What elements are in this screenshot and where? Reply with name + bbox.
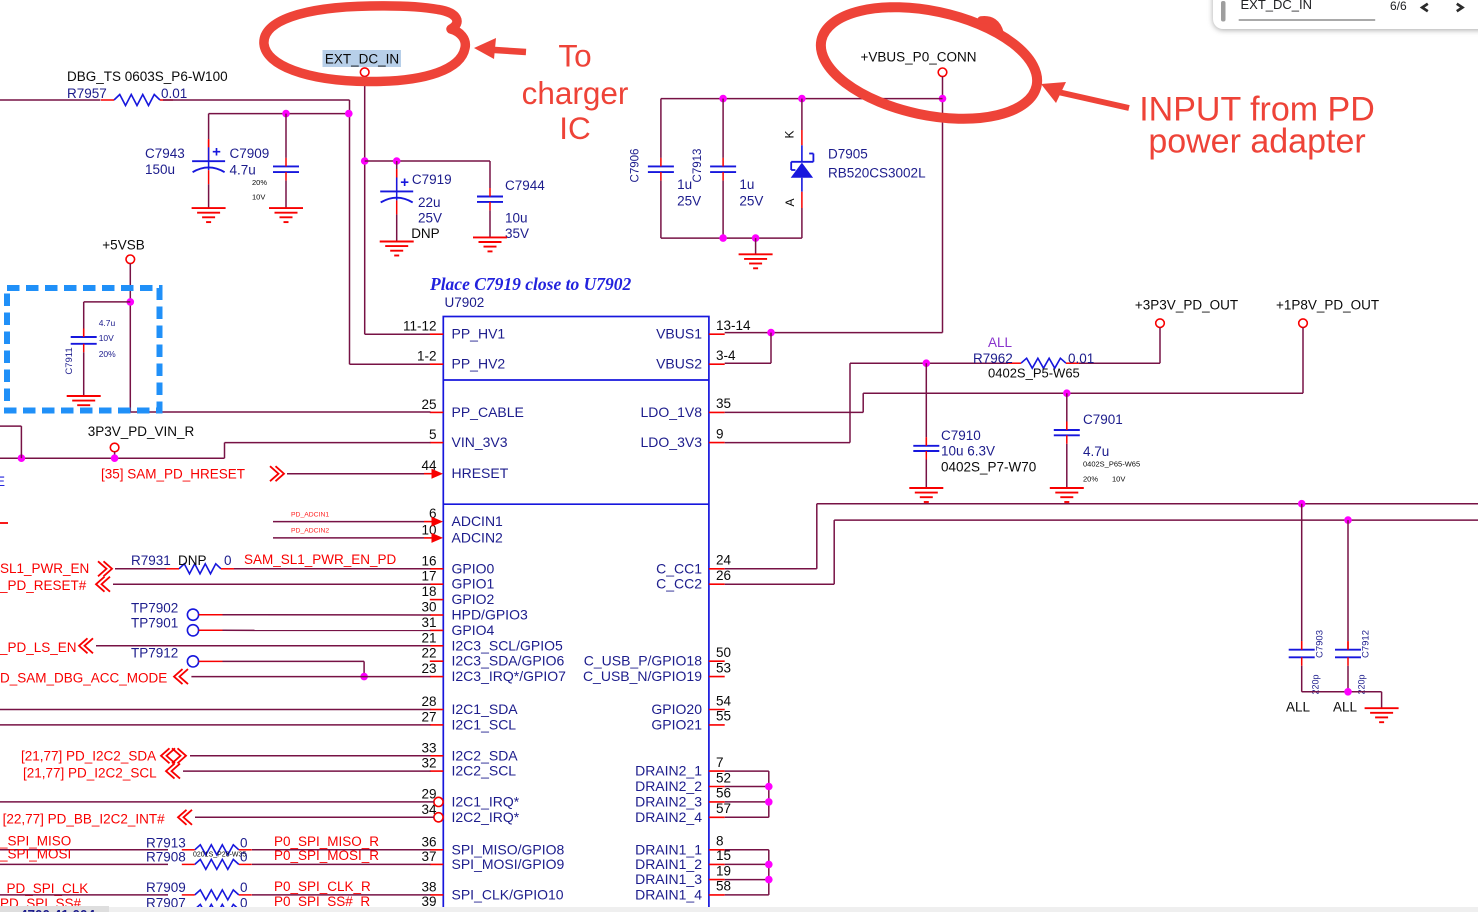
chevron <<	[96, 577, 110, 592]
wire MOSI from left edge	[0, 863, 168, 865]
junction D7905 top	[798, 95, 806, 103]
IC section divider 1	[443, 379, 709, 381]
wire C_CC1 to CC1 bus	[725, 568, 817, 570]
ground C7910	[909, 488, 943, 502]
wire CC2 bus to right edge	[834, 519, 1478, 521]
capacitor C7912 220p	[1335, 641, 1361, 666]
U7902 left pin stubs	[430, 333, 444, 335]
chevron SAM_PD_HRESET >>	[270, 466, 284, 481]
wire 3P3V port to net	[114, 452, 116, 458]
capacitor C7944 10u 35V	[477, 188, 503, 210]
wire C7943 to ground	[208, 184, 210, 208]
wire to pin 33	[190, 755, 431, 757]
wire C7944 leg	[489, 161, 491, 188]
wire R7962 to +3P3V port	[1079, 362, 1160, 364]
wire cap rail C7943/C7909	[209, 113, 350, 115]
DRAIN2 bracket wires	[725, 770, 769, 772]
wire +3P3V drop	[1159, 328, 1161, 364]
junction DRAIN1_2	[765, 861, 773, 869]
wire C7912 leg	[1347, 520, 1349, 641]
cut red dash at left edge	[0, 522, 8, 524]
wire to pin 21	[96, 645, 431, 647]
wire C7909 leg upper	[285, 114, 287, 158]
wire gnd stem	[755, 238, 757, 254]
junction DRAIN2_3	[765, 798, 773, 806]
ADCIN2 input arrow pin 10	[432, 533, 444, 543]
resistor R7957 0.01	[114, 95, 160, 106]
wire left edge jog	[20, 426, 22, 458]
wire corner down to PP_HV2	[349, 100, 351, 364]
wire to pin 17	[113, 583, 431, 585]
capacitor C7910 10u 6.3V	[913, 437, 939, 459]
wire R7913 to pin 36	[252, 849, 431, 851]
find bar underline	[1239, 19, 1376, 21]
wire C7911 branch	[84, 301, 131, 303]
wire gnd stem	[1381, 692, 1383, 708]
wire EXT_DC_IN vertical to PP_HV1	[364, 77, 366, 335]
junction +VBUS rail	[939, 95, 947, 103]
wire C7903 lower	[1301, 666, 1303, 692]
DRAIN2 bracket vertical	[768, 771, 770, 817]
wire C7912 lower	[1347, 666, 1349, 692]
wire TP7902 to pin 30	[199, 614, 223, 616]
junction C7911 tap	[127, 298, 135, 306]
wire pin 28 I2C1_SDA from left edge	[0, 709, 431, 711]
ground C7909	[269, 208, 303, 222]
wire C7910 leg	[925, 363, 927, 437]
junction C7919 leg	[393, 157, 401, 165]
wire C7944 to ground	[489, 210, 491, 237]
resistor R7931 DNP 0	[179, 564, 221, 574]
wire VBUS2 riser	[770, 333, 772, 364]
pin 39 stub (partial)	[430, 908, 444, 910]
find bar next chevron	[1457, 4, 1463, 11]
wire LDO_1V8 to 1P8 rail	[725, 411, 864, 413]
capacitor C7906 1u 25V	[648, 158, 674, 181]
svg-text:EXT_DC_IN: EXT_DC_IN	[1241, 0, 1313, 12]
find bar prev chevron	[1422, 4, 1428, 11]
junction at x21	[18, 454, 26, 462]
wire TP7901 to pin 31	[199, 629, 223, 631]
wire +1P8V drop	[1302, 328, 1304, 394]
chevron <<	[79, 638, 93, 653]
wire C7906 leg lower	[660, 181, 662, 239]
wire riser to pin 5	[224, 443, 226, 459]
ADCIN1 input arrow pin 6	[432, 517, 444, 527]
wire pin 29 from left edge	[0, 801, 434, 803]
diode D7905 RB520CS3002L (schottky)	[791, 145, 814, 191]
chevron <<	[166, 764, 180, 779]
junction C7912 tap	[1344, 516, 1352, 524]
U7902 right pin stubs	[709, 333, 725, 335]
wire VBUS bottom rail	[661, 237, 802, 239]
open-circle pin 29 I2C1_IRQ*	[434, 797, 443, 806]
wire 3V3 rail to R7962	[850, 362, 1008, 364]
wire VBUS top rail	[661, 98, 943, 100]
ground VBUS filter	[739, 254, 773, 268]
junction EXT_DC_IN / C7919 rail	[361, 157, 369, 165]
chevron <<	[178, 810, 192, 825]
resistor R7909 0	[195, 890, 239, 900]
wire C7919 to ground	[396, 214, 398, 241]
port circle +3P3V_PD_OUT	[1156, 319, 1165, 328]
blue dashed placement box	[7, 288, 160, 411]
port circle 3P3V_PD_VIN_R	[110, 443, 119, 452]
capacitor C7903 220p	[1289, 641, 1315, 666]
wire to pin 23	[191, 676, 430, 678]
wire C7911 to ground	[83, 352, 85, 396]
wire PP_HV1 horizontal	[365, 333, 431, 335]
junction at port	[111, 454, 119, 462]
wire to pin 34	[195, 816, 434, 818]
annotation ellipse around +VBUS_P0_CONN	[811, 0, 1048, 137]
browser find bar	[1213, 0, 1478, 29]
wire DBG_TS net from left edge	[0, 99, 101, 101]
junction VBUS1/VBUS2	[767, 329, 775, 337]
wire C7910 to ground	[925, 460, 927, 489]
port circle +VBUS_P0_CONN	[938, 68, 947, 77]
wire TP7912 jog to pin 23 wire	[199, 660, 223, 662]
capacitor C7913 1u 25V	[710, 158, 736, 181]
port circle EXT_DC_IN	[360, 68, 369, 77]
port circle +5VSB	[126, 255, 135, 264]
IC section divider 2	[443, 503, 709, 505]
annotation arrow to EXT_DC_IN	[487, 50, 526, 53]
wire C7909 to ground	[285, 181, 287, 209]
junction C7913 top	[719, 95, 727, 103]
wire ADCIN1	[273, 521, 424, 523]
bottom page-edge strip	[0, 907, 1478, 912]
junction C7901 tap	[1063, 389, 1071, 397]
wire R7957 to corner	[163, 99, 350, 101]
wire caps join to ground	[1302, 691, 1382, 693]
wire CLK from left edge	[0, 894, 168, 896]
wire LDO_3V3 to 3V3 rail	[725, 442, 850, 444]
ground CC filter	[1365, 708, 1399, 722]
annotation ellipse around EXT_DC_IN	[264, 6, 465, 82]
wire CC1 bus to right edge	[817, 503, 1478, 505]
HRESET input arrow pin 44	[432, 469, 444, 479]
wire R7909 to pin 38	[252, 894, 431, 896]
op-amp U7902 body (IC outline)	[443, 317, 709, 912]
capacitor C7919 22u 25V DNP (polarized)	[380, 169, 413, 214]
wire D7905 leg upper	[801, 99, 803, 130]
junction rail corner	[345, 110, 353, 118]
wire to R7931	[115, 568, 166, 570]
junction TP7912 on pin23 wire	[360, 673, 368, 681]
resistor R7913 0	[195, 845, 239, 855]
wire SS from left edge	[0, 908, 168, 910]
wire VIN_3V3 net horizontal	[0, 457, 225, 459]
junction DRAIN1_3	[765, 876, 773, 884]
resistor R7908 0	[195, 859, 239, 869]
wire R7931 to pin 16	[234, 568, 431, 570]
wire +VBUS vertical	[942, 77, 944, 333]
junction C7903 tap	[1298, 500, 1306, 508]
wire 1P8 rail	[863, 392, 1303, 394]
wire to pin 32	[183, 770, 431, 772]
wire ADCIN2	[273, 537, 424, 539]
port EXT_DC_IN highlight	[323, 50, 402, 67]
wire C7903 leg	[1301, 504, 1303, 642]
ground C7943	[192, 208, 226, 222]
bottom-left status bubble	[0, 906, 109, 912]
capacitor C7909 4.7u	[273, 158, 299, 181]
wire C7913 leg upper	[722, 99, 724, 158]
find bar caret	[1221, 1, 1226, 22]
DRAIN1 bracket vertical	[768, 850, 770, 895]
wire C7913 leg lower	[722, 181, 724, 239]
junction bottom rail gnd	[752, 234, 760, 242]
capacitor C7911 4.7u	[71, 329, 97, 353]
wire HRESET	[287, 473, 424, 475]
wire +5VSB vertical	[129, 264, 131, 412]
junction join	[1344, 688, 1352, 696]
cut text fragments bottom	[0, 0, 400, 912]
wire C7919 rail	[365, 160, 490, 162]
chevron << >> bidirectional	[161, 748, 175, 763]
resistor R7907 0	[195, 904, 239, 912]
svg-text:6/6: 6/6	[1390, 0, 1407, 13]
wire C7906 leg upper	[660, 99, 662, 158]
wire MISO from left edge	[0, 849, 168, 851]
resistor R7962 0.01	[1021, 358, 1066, 368]
open-circle pin 34 I2C2_IRQ*	[434, 813, 443, 822]
ground C7919	[380, 242, 414, 256]
chevron >>	[98, 561, 112, 576]
wire C7919 leg	[396, 161, 398, 169]
port circle +1P8V_PD_OUT	[1299, 319, 1308, 328]
wire D7905 leg lower	[801, 192, 803, 208]
wire C7901 leg	[1066, 393, 1068, 421]
wire C7901 to ground	[1066, 444, 1068, 488]
chevron <<	[174, 669, 188, 684]
wire pin 27 I2C1_SCL from left edge	[0, 724, 431, 726]
DRAIN1 bracket wires	[725, 849, 769, 851]
wire PP_CABLE horizontal pin 25	[130, 411, 430, 413]
junction C7910 tap	[923, 359, 931, 367]
wire R7907 to pin 39	[252, 908, 431, 910]
ground C7944	[473, 237, 507, 251]
capacitor C7943 150u (polarized)	[192, 139, 225, 184]
wire R7908 to pin 37	[252, 863, 431, 865]
wire C_CC2 to CC2 bus	[725, 583, 835, 585]
ground C7911	[67, 396, 101, 410]
wire VBUS1 horizontal	[725, 332, 943, 334]
junction bottom rail C7913	[719, 234, 727, 242]
annotation arrow to +VBUS_P0_CONN	[1058, 92, 1129, 108]
ground C7901	[1050, 488, 1084, 502]
wire PP_HV2 horizontal	[350, 363, 431, 365]
wire C7943 leg upper	[208, 114, 210, 140]
junction DRAIN2_2	[765, 783, 773, 791]
capacitor C7901 4.7u	[1054, 422, 1080, 444]
svg-text:4700 41.004: 4700 41.004	[20, 908, 96, 912]
junction C7909 rail	[282, 110, 290, 118]
